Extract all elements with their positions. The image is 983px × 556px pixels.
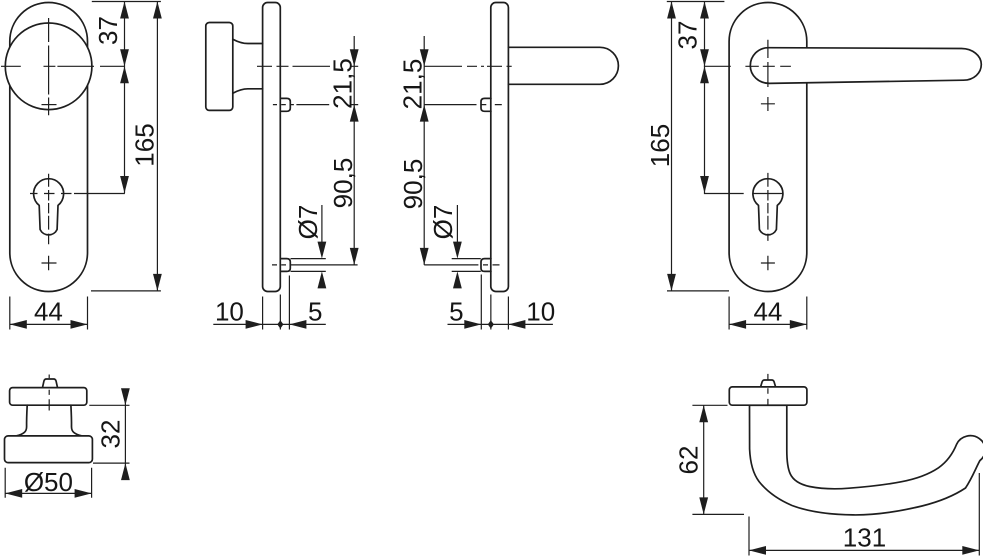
- dim 37 + 72 line: [704, 2, 706, 194]
- boss crosshair horizontal: [704, 65, 791, 67]
- knob neck: [233, 39, 263, 93]
- cylinder crosshair horizontal + extension: [30, 193, 125, 195]
- pin1 centerline: [273, 104, 358, 106]
- svg-text:37: 37: [93, 16, 123, 45]
- knob neck profile: [17, 405, 82, 436]
- svg-text:131: 131: [843, 522, 886, 552]
- pin2 edge extensions (for dia 7): [452, 259, 481, 272]
- pin2 tab: [481, 259, 491, 272]
- knob head: [5, 436, 93, 463]
- lever grip side: [508, 47, 618, 84]
- svg-text:5: 5: [308, 297, 322, 327]
- cylinder crosshair vertical: [767, 173, 769, 241]
- dim 165 line: [91, 2, 161, 291]
- svg-text:165: 165: [645, 124, 675, 167]
- plate strip: [10, 388, 87, 406]
- svg-text:37: 37: [672, 21, 702, 50]
- knob head: [206, 23, 233, 111]
- knob axis centerline: [257, 65, 358, 67]
- bottom dims 10 / 5: [213, 276, 325, 330]
- dim 32: [89, 390, 129, 478]
- svg-text:Ø7: Ø7: [428, 205, 458, 240]
- bottom dims 5 / 10: [448, 275, 553, 330]
- center dash line: [767, 374, 769, 412]
- svg-text:10: 10: [215, 297, 244, 327]
- dim 37 + 72 line: [124, 2, 126, 194]
- pin2 edge extensions (for dia 7): [291, 259, 326, 272]
- boss crosshair vertical: [767, 40, 769, 87]
- euro cylinder keyhole: [753, 179, 783, 235]
- dim dia50: [5, 468, 91, 498]
- plate outline: [729, 3, 807, 292]
- knob circle: [5, 23, 92, 110]
- lever handle front: [750, 48, 981, 84]
- svg-text:Ø50: Ø50: [24, 467, 73, 497]
- svg-text:Ø7: Ø7: [293, 205, 323, 240]
- svg-text:10: 10: [526, 297, 555, 327]
- spindle stub: [43, 379, 58, 388]
- pin1 cross: [42, 104, 57, 106]
- pin2 tab: [280, 259, 290, 272]
- pin1 tab: [481, 98, 491, 111]
- svg-text:62: 62: [673, 446, 703, 475]
- svg-text:21,5: 21,5: [398, 59, 428, 110]
- svg-text:90,5: 90,5: [328, 158, 358, 209]
- knob centerline horizontal: [1, 65, 125, 67]
- diamond at shared edge: [277, 320, 283, 328]
- dia7 leader and arrows: [321, 205, 323, 246]
- pin1 tab: [280, 98, 290, 111]
- svg-text:90,5: 90,5: [398, 159, 428, 210]
- dim line 21,5 / 90,5: [353, 36, 355, 265]
- pin2 cross: [42, 256, 57, 270]
- svg-text:44: 44: [34, 297, 63, 327]
- dim 165 line: [667, 2, 729, 291]
- plate bar: [491, 3, 509, 292]
- plate strip: [729, 387, 807, 405]
- cylinder crosshair vertical: [48, 174, 50, 244]
- dim line 21,5 / 90,5: [423, 36, 425, 265]
- dia7 leader and arrows: [456, 205, 458, 246]
- dim 44: [729, 297, 807, 330]
- dim 131: [749, 473, 979, 556]
- dim 44: [10, 297, 88, 330]
- svg-text:44: 44: [753, 297, 782, 327]
- lever handle profile: [750, 405, 983, 515]
- lever axis centerline: [424, 65, 512, 67]
- plate bar: [263, 3, 281, 292]
- cylinder crosshair horizontal + extension: [704, 193, 784, 195]
- euro cylinder keyhole: [34, 179, 64, 235]
- svg-text:21,5: 21,5: [327, 58, 357, 109]
- pin2 centerline + extension: [272, 264, 358, 266]
- pin1 cross: [761, 97, 775, 111]
- center dash line: [48, 375, 50, 411]
- pin1 centerline: [424, 104, 502, 106]
- knob centerline vertical: [48, 18, 50, 115]
- dim 62: [692, 405, 744, 514]
- plate outline: [10, 3, 88, 292]
- spindle stub: [761, 380, 776, 387]
- diamond at shared edge: [488, 320, 494, 328]
- pin2 cross: [761, 256, 775, 270]
- svg-text:165: 165: [130, 123, 160, 166]
- svg-text:32: 32: [96, 420, 126, 449]
- pin2 centerline + extension: [424, 264, 499, 266]
- svg-text:5: 5: [449, 297, 463, 327]
